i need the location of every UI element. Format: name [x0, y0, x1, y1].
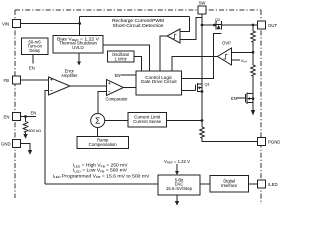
svg-text:300 kΩ: 300 kΩ	[28, 128, 41, 133]
node SW-OUT rail junction	[201, 24, 204, 27]
wire digital interface to ILED pin	[249, 183, 258, 185]
node Q1 source body tie	[201, 90, 204, 93]
svg-text:Comparator: Comparator	[105, 97, 128, 102]
box oscillator	[108, 51, 135, 62]
svg-text:OVP: OVP	[222, 41, 231, 46]
wire error amp output to comparator	[70, 85, 107, 87]
box 5-bit DAC	[158, 175, 200, 195]
transistor Q1	[196, 82, 211, 93]
chip boundary top	[15, 9, 261, 11]
wire detection comparator top input	[180, 16, 190, 31]
svg-text:VIN: VIN	[2, 22, 9, 27]
node error amp input marks	[50, 79, 52, 91]
svg-text:OUT: OUT	[268, 23, 277, 28]
transistor EN discharge FET	[231, 93, 253, 111]
node comparator input marks	[108, 82, 110, 92]
wire OUT rail right of Q2	[221, 24, 257, 26]
wire detection comparator output to control logic	[160, 36, 167, 71]
wire current sense to Q1 source node	[167, 120, 203, 122]
pin EN	[13, 113, 21, 121]
pin OUT	[258, 21, 266, 29]
wire gate drive to Q1	[182, 89, 196, 91]
wire sense to PGND	[202, 138, 258, 142]
box 50ms turn-on delay	[22, 38, 49, 55]
wire OUT rail left of Q2	[202, 24, 216, 26]
wire divider middle	[252, 42, 254, 65]
wire EN pin stub	[21, 116, 37, 118]
ground GND pin	[28, 150, 32, 155]
wire delay EN stub	[32, 55, 34, 64]
svg-text:UVLO: UVLO	[72, 45, 84, 50]
node sense junction	[201, 119, 204, 122]
wire bias to control logic	[103, 45, 150, 71]
pin GND	[13, 140, 21, 148]
node Q2 drain	[213, 24, 216, 27]
wire Vref arrow into DAC	[176, 164, 178, 171]
svg-text:EN: EN	[231, 96, 237, 101]
resistor divider lower	[251, 65, 256, 76]
svg-text:ILED Programmed VFB = 15.6 mV: ILED Programmed VFB = 15.6 mV to 500 mV	[53, 173, 150, 179]
transistor Q2	[215, 17, 221, 29]
node VIN tee	[78, 22, 81, 25]
svg-text:Delay: Delay	[29, 48, 41, 53]
summer sigma	[91, 114, 105, 128]
node OVP sense tap	[252, 51, 255, 54]
svg-text:Σ: Σ	[95, 116, 100, 126]
node OVP divider tap top	[252, 24, 255, 27]
wire OVP plus input from divider	[232, 51, 254, 53]
wire comparator output	[124, 87, 137, 89]
wire summer to current sense box	[105, 120, 128, 122]
svg-text:Short-Circuit Detection: Short-Circuit Detection	[113, 23, 165, 28]
svg-text:Interface: Interface	[221, 183, 238, 188]
svg-text:GND: GND	[1, 142, 11, 147]
resistor 300k	[23, 122, 28, 133]
box digital interface	[210, 176, 249, 193]
box control logic gate drive	[136, 71, 182, 95]
wire error amp minus input	[45, 91, 49, 185]
wire FB to error amplifier	[21, 79, 49, 81]
pin ILED	[258, 180, 266, 188]
box ramp compensation	[77, 137, 129, 149]
wire OVP output to control logic	[172, 57, 218, 72]
svg-text:ILED: ILED	[268, 182, 278, 187]
wire oscillator to control logic	[134, 57, 142, 72]
node EN FET body tie	[252, 97, 255, 100]
wire divider upper lead	[252, 25, 254, 31]
chip boundary left	[14, 10, 16, 198]
wire VIN rail	[21, 23, 80, 25]
wire OVP minus input Vref stub	[232, 59, 241, 61]
op-amp OVP comparator	[218, 41, 232, 65]
node EN junction	[24, 115, 27, 118]
wire detection comparator bottom input	[180, 18, 202, 40]
svg-text:SW: SW	[199, 1, 206, 6]
pin SW	[198, 6, 206, 14]
op-amp PWM comparator	[105, 80, 128, 102]
svg-text:Vref: Vref	[241, 58, 247, 64]
wire summer to ramp compensation	[97, 128, 99, 137]
svg-text:FB: FB	[4, 78, 10, 83]
op-amp short-circuit detection comparator	[167, 29, 180, 43]
wire sense resistor lead	[201, 121, 203, 128]
svg-text:Current Sense: Current Sense	[133, 119, 162, 124]
svg-text:EN: EN	[4, 115, 10, 120]
svg-text:PGND: PGND	[268, 140, 280, 145]
pin PGND	[258, 138, 266, 146]
svg-text:Gate Drive Circuit: Gate Drive Circuit	[141, 79, 178, 84]
wire divider lower lead	[252, 76, 254, 94]
box bias thermal shutdown uvlo	[53, 35, 103, 53]
wire top rail to detection comparator	[80, 15, 190, 17]
resistor 300k lead	[25, 117, 27, 122]
wire EN stub into control logic	[121, 74, 137, 76]
svg-text:EN: EN	[31, 110, 37, 115]
svg-text:15.6 mV/Step: 15.6 mV/Step	[166, 186, 193, 191]
box current limit current sense	[128, 113, 167, 128]
svg-text:1 MHz: 1 MHz	[115, 56, 127, 61]
svg-text:Compensation: Compensation	[89, 142, 118, 147]
wire bias down arrow	[78, 53, 80, 62]
wire Q1 source to sense node	[201, 92, 203, 121]
svg-text:VREF = 1.22 V: VREF = 1.22 V	[164, 159, 190, 165]
wire Q2 gate bracket	[182, 34, 222, 79]
ground below 300k	[25, 133, 27, 135]
svg-text:EN: EN	[29, 66, 35, 71]
op-amp error amplifier	[49, 69, 79, 96]
resistor sense	[200, 127, 205, 138]
chip boundary right	[260, 10, 262, 204]
wire DAC to error amp feedback	[45, 183, 158, 185]
wire VIN to bias box	[79, 16, 81, 35]
wire comparator minus input from summer	[98, 92, 107, 114]
wire SW drop to Q1	[201, 15, 203, 85]
resistor divider upper	[251, 31, 256, 42]
wire DAC to digital interface	[200, 183, 210, 185]
svg-text:Amplifier: Amplifier	[61, 73, 78, 78]
pin FB	[13, 76, 21, 84]
wire GND stub	[21, 144, 31, 151]
svg-text:Q1: Q1	[205, 82, 211, 87]
wire DAC output down arrow	[176, 195, 178, 201]
pin VIN	[13, 20, 21, 28]
svg-text:EN: EN	[115, 73, 121, 78]
ground EN FET	[251, 110, 255, 116]
